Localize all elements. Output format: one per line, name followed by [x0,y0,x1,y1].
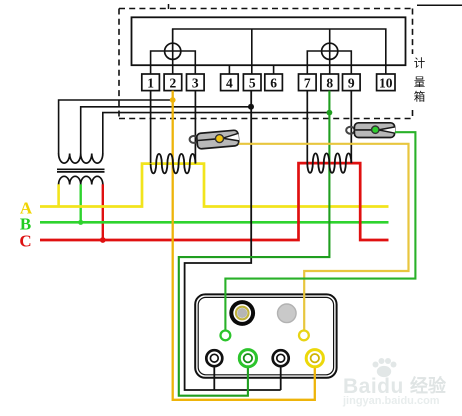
wire T1 stub [213,358,215,390]
meter terminal T1 [206,350,222,366]
wire fuse F2 to meter green circle [225,132,415,331]
meter viewing window [229,300,255,326]
meter terminal T4 [306,350,323,367]
wire T4 stub [314,358,316,367]
wire t2 upper [172,29,174,74]
svg-text:1: 1 [147,76,154,91]
wire t6 stub [273,65,275,74]
node green junction t8 [327,110,333,116]
wire terminal7 to CT2 [306,91,308,163]
svg-text:10: 10 [379,76,393,91]
svg-text:8: 8 [326,76,333,91]
svg-text:jingyan.baidu.com: jingyan.baidu.com [342,395,440,407]
PT primary lead 2 [81,107,252,154]
fuse F2 clip ring [346,127,354,134]
bottom meter box [195,294,336,377]
terminal numbers 1-10 [147,76,393,91]
PT secondary winding [59,176,103,184]
node c junction [100,237,106,243]
wire t4 stub [228,65,230,74]
svg-text:箱: 箱 [414,90,426,104]
svg-text:2: 2 [170,76,177,91]
wire T3 stub [280,358,282,390]
fuse F2 indicator [372,126,379,133]
terminal boxes 1-10 [142,74,395,91]
meter element circle U2 [322,43,338,59]
svg-text:4: 4 [226,76,233,91]
metering cabinet dashed box 计量箱 [119,9,413,119]
PT primary lead 3 [103,113,330,154]
svg-text:9: 9 [348,76,355,91]
PT primary lead 1 [59,100,173,154]
svg-text:经验: 经验 [410,375,447,396]
wire fuse F1 to meter yellow circle [239,144,409,331]
PT primary winding [59,154,103,164]
svg-text:C: C [19,232,31,251]
node b junction [78,220,83,225]
element 2 link line [307,51,351,74]
meter element circle U1 [165,43,181,59]
fuse F1 indicator [216,135,224,143]
bus C phase [40,163,389,240]
meter terminal T3 [273,350,289,366]
element 1 link line [151,51,196,74]
wire phase A yellow: terminal2 down to meter T4 [173,91,315,400]
wire phase B green: terminal8 down to meter T2 [179,91,330,396]
meter gray button [278,304,297,323]
PT secondary lead c [102,184,104,240]
CT2 secondary coil [307,153,351,172]
bus A phase [40,164,389,207]
fuse F1 clip ring [190,136,198,143]
meter case rectangle [132,17,406,65]
svg-text:量: 量 [414,76,426,89]
CT1 secondary coil [151,154,196,173]
meter terminal T2 [239,350,256,367]
wire terminal1 to CT1 [150,91,152,163]
wire t8 upper [329,29,331,74]
svg-text:6: 6 [270,76,277,91]
node black junction t5 [248,104,254,110]
internal voltage bus line (y29) [173,29,386,74]
fuse F1 body [196,130,239,149]
bus B phase [40,221,389,224]
PT core [57,168,105,170]
meter green pilot [221,331,231,341]
PT secondary lead a [57,184,60,207]
bottom meter box inner border [198,297,333,374]
svg-text:计: 计 [414,57,426,70]
watermark baidu jingyan [342,358,447,407]
node yellow junction [170,97,176,103]
stray tick top [168,4,170,9]
stray top right line [417,4,462,6]
svg-text:3: 3 [192,76,199,91]
wire terminal9 to CT2 [350,91,352,163]
wire t5 upper [251,29,253,74]
svg-text:5: 5 [249,76,256,91]
fuse F2 body [354,123,394,138]
svg-text:7: 7 [304,76,311,91]
meter yellow pilot [299,331,309,341]
wire neutral black: terminal5 to meter T1 T3 [185,91,281,390]
wire terminal3 to CT1 [194,91,196,163]
label 计量箱 [414,57,426,104]
PT secondary lead b [79,184,81,222]
